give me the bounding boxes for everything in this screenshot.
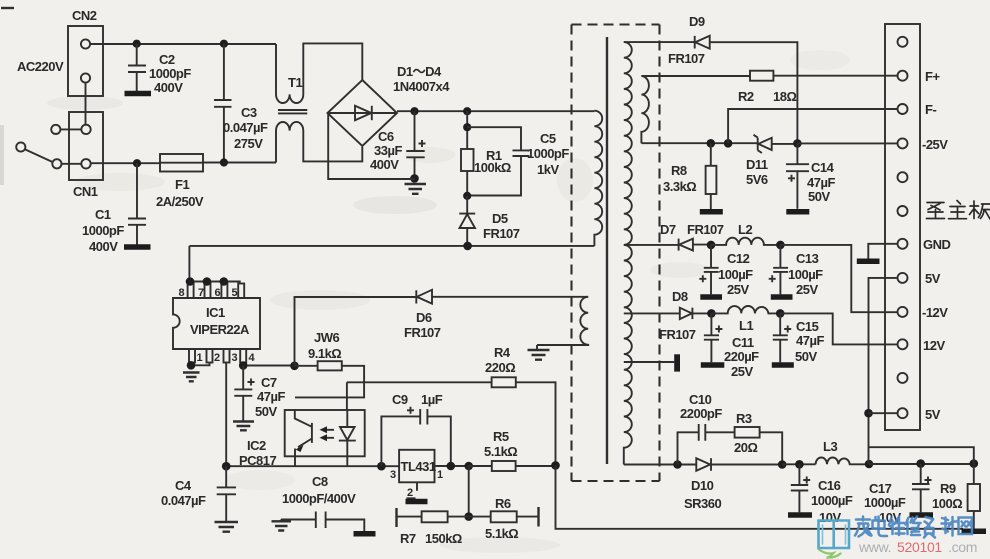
svg-text:C2: C2 <box>159 52 175 67</box>
svg-text:R2: R2 <box>738 89 754 104</box>
ground below C7 <box>233 422 254 431</box>
ground bar center tap <box>674 354 680 371</box>
resistor JW6 <box>295 330 365 397</box>
scan smudges <box>0 50 850 553</box>
ground aux winding <box>528 345 550 360</box>
wire plus12 to pin <box>780 313 897 344</box>
node junction pin6 <box>220 277 229 286</box>
diode D8 <box>659 289 711 342</box>
diode D5 <box>459 196 519 246</box>
svg-text:100kΩ: 100kΩ <box>474 160 511 175</box>
svg-text:3: 3 <box>232 352 238 364</box>
capacitor C6 <box>370 111 426 178</box>
resistor R9 <box>932 464 980 530</box>
svg-text:C8: C8 <box>312 474 328 489</box>
capacitor C12 <box>699 245 753 297</box>
capacitor C4 <box>161 466 236 521</box>
transformer T2 secondary winding <box>624 42 632 464</box>
wire secondary center tap <box>624 361 675 363</box>
node junction R5 left <box>464 462 473 471</box>
pin 2 stub <box>207 349 221 364</box>
label 5V bottom <box>925 407 941 422</box>
resistor R1 <box>461 111 511 196</box>
svg-text:TL431: TL431 <box>401 459 436 474</box>
pin 6 stub <box>215 284 228 300</box>
node junction C13 <box>776 241 785 250</box>
svg-text:-12V: -12V <box>922 305 948 320</box>
ground bar R8 <box>700 209 723 215</box>
svg-text:SR360: SR360 <box>684 496 722 511</box>
svg-text:2200pF: 2200pF <box>680 406 722 421</box>
label GND <box>923 237 951 252</box>
svg-text:1: 1 <box>197 352 203 364</box>
svg-text:C10: C10 <box>689 392 712 407</box>
ground C8 left <box>272 521 292 530</box>
wire 5V net vertical <box>869 278 898 464</box>
node junction L3 out <box>865 460 874 469</box>
pin 8 stub <box>179 284 194 300</box>
svg-text:C11: C11 <box>732 335 754 350</box>
ground bar C11 <box>701 362 725 368</box>
node junction minus25 <box>793 139 802 148</box>
svg-text:C17: C17 <box>869 481 892 496</box>
node junction C6 top <box>410 107 418 115</box>
svg-text:CN2: CN2 <box>72 8 97 23</box>
wire 5V jog to R9 <box>869 447 974 463</box>
wire pin3 to C4 node <box>225 363 227 467</box>
svg-text:50V: 50V <box>795 349 817 364</box>
svg-text:D11: D11 <box>746 157 768 172</box>
node junction snubber left <box>673 460 682 469</box>
svg-text:JW6: JW6 <box>314 330 340 345</box>
node junction 5V pin12 <box>864 409 873 418</box>
node junction bottom C1 <box>133 159 141 167</box>
capacitor C15 <box>773 313 825 364</box>
wire Vdd node up to D6 <box>295 297 417 366</box>
node junction C16 <box>795 460 804 469</box>
IC U1 VIPER22A body <box>173 246 260 349</box>
svg-text:F+: F+ <box>925 69 940 84</box>
node junction R1 top <box>463 107 471 115</box>
svg-text:100µF: 100µF <box>788 267 823 282</box>
svg-text:150kΩ: 150kΩ <box>425 531 462 546</box>
pin 7 stub <box>198 284 211 300</box>
capacitor C13 <box>769 245 823 297</box>
wire secondary bottom rail <box>624 464 697 466</box>
capacitor C2 <box>125 44 192 95</box>
svg-text:C15: C15 <box>796 319 819 334</box>
IC U3 TL431 <box>390 450 469 499</box>
svg-text:10V: 10V <box>819 510 841 525</box>
svg-text:R5: R5 <box>493 429 509 444</box>
svg-text:IC2: IC2 <box>247 438 266 453</box>
label F+ <box>925 69 940 84</box>
svg-text:50V: 50V <box>808 189 830 204</box>
capacitor C16 <box>791 464 853 525</box>
wire 5V output rail <box>782 463 815 465</box>
resistor R2 <box>641 71 897 104</box>
wire minus12 to pin <box>780 245 897 312</box>
svg-text:520101: 520101 <box>897 539 942 555</box>
svg-text:R6: R6 <box>495 496 511 511</box>
node junction C11 <box>707 309 716 318</box>
capacitor C3 <box>214 44 268 163</box>
svg-text:F1: F1 <box>175 177 189 192</box>
wire minus25 to pin <box>797 142 897 144</box>
svg-text:-25V: -25V <box>922 137 948 152</box>
ground bar C13 <box>771 294 793 300</box>
node junction pin4 C7 <box>239 361 248 370</box>
capacitor C14 <box>786 143 835 208</box>
svg-text:CN1: CN1 <box>73 184 98 199</box>
node junction snubber right <box>778 460 787 469</box>
svg-text:D10: D10 <box>691 478 714 493</box>
ground bar R9 <box>962 529 987 535</box>
capacitor C7 <box>234 366 285 421</box>
node junction C15 <box>776 309 785 318</box>
diode D10 <box>684 458 782 511</box>
optocoupler IC2 PC817 <box>239 410 365 468</box>
node junction C6 bottom <box>410 174 419 183</box>
svg-text:FR107: FR107 <box>483 226 520 241</box>
label 5V <box>925 271 941 286</box>
wire CN2 to CN1 link <box>85 83 87 125</box>
ground IC1 source <box>183 373 200 382</box>
node junction divider <box>464 512 473 521</box>
svg-text:C7: C7 <box>261 375 277 390</box>
scan artifact top-left dash <box>1 7 14 9</box>
svg-text:220µF: 220µF <box>724 349 759 364</box>
node junction pin7 <box>203 277 212 286</box>
svg-text:100Ω: 100Ω <box>932 496 962 511</box>
svg-text:5: 5 <box>232 287 238 299</box>
capacitor C17 <box>864 464 932 525</box>
ground below C4 <box>215 522 239 532</box>
connector J1 to mainboard <box>885 24 920 430</box>
svg-text:18Ω: 18Ω <box>773 89 796 104</box>
ground bar C14 <box>786 209 809 215</box>
connector CN2 <box>68 8 103 96</box>
svg-text:50V: 50V <box>255 404 277 419</box>
svg-text:AC220V: AC220V <box>17 59 64 74</box>
svg-text:FR107: FR107 <box>404 325 441 340</box>
svg-text:1000µF: 1000µF <box>864 495 906 510</box>
svg-text:1000µF: 1000µF <box>811 493 853 508</box>
svg-text:D6: D6 <box>416 310 432 325</box>
svg-text:9.1kΩ: 9.1kΩ <box>308 346 341 361</box>
svg-text:400V: 400V <box>89 239 118 254</box>
svg-text:D1〜D4: D1〜D4 <box>397 64 442 79</box>
wire R5 node to divider <box>468 466 470 517</box>
ground bar GND net <box>857 259 880 265</box>
svg-text:C1: C1 <box>95 207 111 222</box>
svg-text:5.1kΩ: 5.1kΩ <box>484 444 517 459</box>
capacitor C1 <box>82 163 151 254</box>
svg-text:1000pF: 1000pF <box>82 223 124 238</box>
svg-text:220Ω: 220Ω <box>485 360 515 375</box>
svg-text:VIPER22A: VIPER22A <box>190 322 250 337</box>
capacitor C8 <box>281 474 364 531</box>
svg-text:R7: R7 <box>400 531 416 546</box>
watermark logo book <box>819 521 850 558</box>
diode D9 <box>668 14 797 143</box>
capacitor C11 <box>704 313 759 379</box>
label F- <box>925 102 936 117</box>
svg-text:C16: C16 <box>818 478 841 493</box>
diode D6 <box>404 290 588 340</box>
svg-text:C6: C6 <box>378 129 394 144</box>
svg-text:5V: 5V <box>925 407 941 422</box>
node junction top C2 <box>133 40 141 48</box>
node junction TL431 ref <box>377 462 386 471</box>
node junction feedback Vdd <box>290 362 299 371</box>
svg-text:2: 2 <box>407 487 413 499</box>
ground bar C8 right <box>354 531 376 537</box>
svg-text:100µF: 100µF <box>718 267 753 282</box>
wire DC+ rail to primary <box>397 110 594 112</box>
svg-text:3.3kΩ: 3.3kΩ <box>663 179 696 194</box>
svg-text:.com: .com <box>948 539 977 555</box>
inductor L3 <box>816 439 869 464</box>
svg-text:L2: L2 <box>738 222 752 237</box>
capacitor C9 <box>381 392 450 466</box>
watermark Chinese text <box>855 517 972 538</box>
wire secondary top to D9 <box>624 41 695 43</box>
svg-text:R4: R4 <box>494 345 511 360</box>
svg-text:8: 8 <box>179 287 185 299</box>
fuse F1 <box>156 154 204 209</box>
svg-text:D7: D7 <box>660 222 676 237</box>
inductor L2 <box>711 222 780 245</box>
svg-text:FR107: FR107 <box>659 327 696 342</box>
node junction D5 drain <box>463 242 472 251</box>
wire 5V to pin12 <box>869 412 898 414</box>
label -25V <box>922 137 948 152</box>
svg-text:400V: 400V <box>154 80 183 95</box>
svg-text:2A/250V: 2A/250V <box>156 194 204 209</box>
wire fb winding bottom rail <box>641 142 757 144</box>
svg-text:0.047µF: 0.047µF <box>161 493 206 508</box>
svg-text:L1: L1 <box>739 318 753 333</box>
label -12V <box>922 305 948 320</box>
node junction R1 C5 top <box>463 123 471 131</box>
svg-text:1kV: 1kV <box>537 162 559 177</box>
node junction top C3 <box>220 40 228 48</box>
label AC220V <box>17 59 64 74</box>
resistor R3 <box>734 411 782 465</box>
svg-text:FR107: FR107 <box>668 51 705 66</box>
wire secondary tap D8 <box>624 312 680 314</box>
node junction C3 bottom <box>220 158 228 166</box>
resistor R4 <box>347 345 556 465</box>
node junction C17 <box>916 459 925 468</box>
wire GND pin drop <box>868 244 897 259</box>
wire pin4 to feedback node <box>243 363 294 366</box>
svg-text:1000pF: 1000pF <box>149 66 191 81</box>
svg-text:25V: 25V <box>727 282 749 297</box>
svg-text:1000pF/400V: 1000pF/400V <box>282 491 356 506</box>
wire bottom return line <box>556 465 964 528</box>
wire feedback ref rail <box>226 465 399 467</box>
transformer T2 aux winding <box>537 297 588 345</box>
node junction R4 R5 bottom <box>551 461 560 470</box>
svg-text:3: 3 <box>390 469 396 481</box>
pin 4 stub <box>240 349 255 364</box>
pin 5 stub <box>232 284 245 300</box>
svg-text:5V: 5V <box>925 271 941 286</box>
svg-text:4: 4 <box>249 352 256 364</box>
svg-text:12V: 12V <box>923 338 945 353</box>
capacitor C5 <box>467 127 569 195</box>
svg-text:1: 1 <box>437 469 443 481</box>
wire bridge negative to ground <box>328 114 414 180</box>
wire LED anode riser <box>346 382 348 410</box>
watermark url text <box>858 539 977 555</box>
ground bar TL431 anode <box>406 499 428 505</box>
svg-text:5.1kΩ: 5.1kΩ <box>485 526 518 541</box>
ground below C6 <box>405 184 427 194</box>
label to mainboard (Chinese) <box>927 201 990 220</box>
svg-text:400V: 400V <box>370 157 399 172</box>
ground bar C17 <box>910 512 934 518</box>
node junction R8 top <box>707 139 716 148</box>
wire drain rail <box>189 245 594 247</box>
transformer T2 primary winding <box>594 111 602 246</box>
svg-text:1µF: 1µF <box>421 392 443 407</box>
svg-text:T1: T1 <box>288 75 302 90</box>
svg-text:R9: R9 <box>940 481 956 496</box>
svg-text:47µF: 47µF <box>807 175 835 190</box>
transformer T2 shield box <box>572 25 660 482</box>
svg-text:L3: L3 <box>823 439 837 454</box>
resistor R8 <box>663 143 716 209</box>
wire AC line bottom rail <box>91 162 160 164</box>
connector CN1 <box>69 112 103 199</box>
svg-text:R3: R3 <box>736 411 752 426</box>
ground bar C16 <box>788 512 812 518</box>
svg-text:D5: D5 <box>492 211 508 226</box>
wire AC line top rail <box>90 43 276 45</box>
pin 3 stub <box>224 349 238 364</box>
resistor R7 <box>397 508 469 546</box>
svg-text:C13: C13 <box>796 251 819 266</box>
ground bar C15 <box>772 362 794 368</box>
node junction C12 <box>707 241 716 250</box>
svg-text:25V: 25V <box>796 282 818 297</box>
svg-text:R8: R8 <box>671 163 687 178</box>
node junction TL431 cathode <box>447 462 456 471</box>
inductor T1 common-mode choke <box>276 43 362 162</box>
svg-text:IC1: IC1 <box>206 305 225 320</box>
ground bar C12 <box>700 294 722 300</box>
capacitor C10 <box>678 392 735 465</box>
node junction Fminus tap <box>724 139 733 148</box>
resistor R6 <box>469 496 539 541</box>
svg-text:6: 6 <box>215 287 221 299</box>
inductor L1 <box>711 306 780 333</box>
svg-text:F-: F- <box>925 102 936 117</box>
svg-text:D9: D9 <box>689 14 705 29</box>
svg-text:20Ω: 20Ω <box>734 440 757 455</box>
svg-text:25V: 25V <box>731 364 753 379</box>
pin 1 stub <box>189 349 203 364</box>
svg-text:33µF: 33µF <box>374 143 402 158</box>
resistor R5 <box>469 429 556 471</box>
svg-text:C9: C9 <box>392 392 408 407</box>
svg-text:C14: C14 <box>811 160 835 175</box>
svg-text:0.047µF: 0.047µF <box>223 120 268 135</box>
diode D7 <box>660 222 724 251</box>
svg-text:C12: C12 <box>727 251 750 266</box>
node junction C4 <box>222 462 231 471</box>
node junction pin1 gnd <box>187 361 196 370</box>
svg-text:GND: GND <box>923 237 951 252</box>
transformer T2 fb winding <box>641 76 649 143</box>
svg-text:47µF: 47µF <box>257 389 285 404</box>
node junction R1 C5 bottom <box>463 192 471 200</box>
svg-text:1000pF: 1000pF <box>527 146 569 161</box>
svg-text:47µF: 47µF <box>796 333 824 348</box>
svg-text:www.: www. <box>858 539 891 555</box>
switch S1 <box>16 125 81 169</box>
label 12V <box>923 338 945 353</box>
svg-text:C4: C4 <box>175 478 192 493</box>
svg-text:5V6: 5V6 <box>746 172 768 187</box>
bridge rectifier D1-D4 <box>328 64 451 146</box>
transformer T2 core <box>606 37 608 464</box>
svg-text:1N4007x4: 1N4007x4 <box>393 79 450 94</box>
svg-text:275V: 275V <box>234 136 263 151</box>
wire secondary tap D7 <box>624 244 679 246</box>
svg-text:7: 7 <box>198 287 204 299</box>
zener D11 <box>746 135 797 187</box>
wire pin1 pin2 to ground <box>192 363 210 369</box>
wire rail to C17 R9 <box>869 463 974 465</box>
node junction R9 <box>970 459 979 468</box>
svg-text:2: 2 <box>214 352 220 364</box>
svg-text:C3: C3 <box>241 105 257 120</box>
wire Fminus to pin <box>728 109 898 143</box>
wire F1 to T1 <box>203 162 276 164</box>
svg-text:FR107: FR107 <box>687 222 724 237</box>
node junction pin8 <box>186 277 195 286</box>
svg-text:D8: D8 <box>672 289 688 304</box>
svg-text:C5: C5 <box>540 131 556 146</box>
